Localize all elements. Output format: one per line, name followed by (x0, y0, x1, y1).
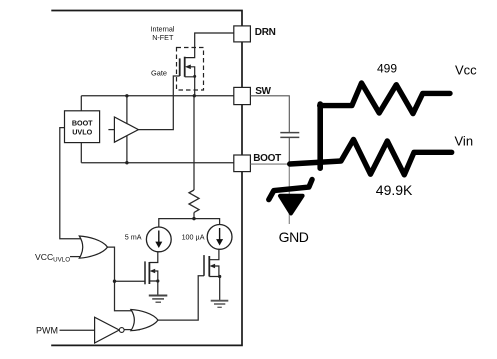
wire OR2 output to M2 gate (158, 276, 204, 320)
wire BOOT pad to external (251, 163, 291, 165)
svg-text:100 µA: 100 µA (182, 232, 205, 241)
svg-text:5 mA: 5 mA (125, 232, 142, 241)
BOOT UVLO block (65, 111, 100, 143)
or-gate OR1 (79, 236, 107, 258)
or-gate OR2 (131, 310, 158, 331)
wire current-source rail (159, 219, 220, 227)
svg-text:BOOT: BOOT (72, 118, 93, 127)
wire resistor to current-source rail (193, 213, 195, 219)
ground M2 (211, 301, 229, 308)
transistor M1 (145, 252, 158, 295)
svg-text:UVLO: UVLO (72, 127, 92, 136)
svg-text:499: 499 (377, 62, 397, 76)
svg-text:N-FET: N-FET (152, 33, 174, 42)
svg-text:BOOT: BOOT (253, 153, 281, 164)
transistor internal N-FET body arrow (185, 65, 191, 70)
svg-text:Vin: Vin (455, 133, 474, 148)
inverter U3 (95, 317, 120, 343)
wire SW node down to resistor (193, 96, 195, 190)
wire SW line (81, 95, 234, 97)
wire thick vertical joining resistors (317, 104, 323, 168)
resistor 499 (hand-drawn) (320, 83, 450, 114)
node junction resistor/current-source rail (192, 217, 195, 220)
wire BOOT line (81, 162, 234, 164)
wire BOOT node down through zener to GND (288, 163, 290, 224)
diode zener GND clamp (hand-drawn) (269, 180, 312, 200)
ground M1 (149, 296, 168, 303)
wire PWM input (60, 329, 95, 331)
svg-text:DRN: DRN (255, 27, 276, 38)
wire BOOT-UVLO top lead (80, 96, 82, 111)
wire driver output to FET gate (138, 76, 179, 130)
capacitor bootstrap (280, 132, 299, 134)
svg-text:Gate: Gate (151, 69, 167, 78)
IC outline border (51, 11, 242, 346)
transistor internal N-FET dashed box (177, 48, 204, 91)
transistor M2 (204, 249, 220, 300)
current source I2 100uA (207, 225, 232, 250)
wire cap to BOOT line (288, 138, 290, 163)
resistor internal pulldown (189, 190, 199, 213)
wire OR1 output down (108, 247, 141, 311)
wire SW to bootstrap cap (251, 96, 290, 132)
svg-text:PWM: PWM (36, 326, 58, 336)
node junction SW/FET source (193, 94, 196, 97)
svg-text:Vcc: Vcc (455, 63, 477, 78)
node junction SW/driver supply (125, 94, 128, 97)
current source I1 5mA (146, 227, 171, 252)
wire driver input stub (108, 129, 114, 131)
wire branch to M1 gate (115, 280, 146, 282)
wire BOOT-UVLO left stub down to OR1 (60, 128, 84, 239)
pad BOOT (234, 155, 251, 172)
transistor internal N-FET (180, 33, 234, 96)
wire driver supply vertical (126, 96, 128, 163)
svg-text:49.9K: 49.9K (376, 182, 413, 198)
wire VCCUVLO input (70, 256, 84, 258)
node junction OR1 out / M1 gate branch (113, 280, 116, 283)
resistor 49.9K (hand-drawn) (290, 139, 452, 174)
pad SW (234, 87, 251, 104)
wire BOOT-UVLO bottom lead (80, 143, 82, 163)
svg-text:GND: GND (279, 229, 309, 245)
op-amp gate driver triangle (114, 117, 138, 142)
pad DRN (234, 26, 251, 42)
wire inverter to OR2 input (124, 329, 140, 331)
node junction BOOT/driver supply (125, 161, 128, 164)
